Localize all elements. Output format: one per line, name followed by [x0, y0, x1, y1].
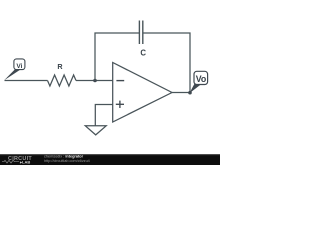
node junction at inverting input [93, 79, 97, 83]
CircuitLab watermark footer bar [0, 154, 220, 165]
resistor R [48, 62, 77, 86]
svg-text:▸LAB: ▸LAB [19, 159, 30, 164]
op-amp inverting input marker - [116, 80, 124, 82]
wire feedback right segment down to output [143, 33, 190, 93]
svg-text:chemsodix : integrator: chemsodix : integrator [44, 154, 84, 158]
wire noninverting input to ground [95, 105, 112, 126]
op-amp U1 [113, 63, 172, 123]
wire resistor to op-amp inverting input [76, 80, 113, 82]
svg-text:Vi: Vi [16, 63, 22, 70]
flag Vo [189, 71, 207, 93]
flag Vi [4, 59, 25, 80]
node junction at output [188, 91, 192, 95]
svg-text:R: R [57, 62, 63, 71]
wire op-amp output [172, 92, 190, 94]
op-amp noninverting input marker + [116, 103, 124, 105]
wire input from Vi to resistor [5, 80, 48, 82]
svg-text:Vo: Vo [196, 74, 207, 84]
capacitor C [139, 21, 146, 58]
ground [85, 126, 106, 135]
svg-text:C: C [140, 48, 146, 57]
svg-text:http://circuitlab.com/c6vzu4: http://circuitlab.com/c6vzu4 [44, 159, 90, 163]
wire feedback up-left segment [95, 33, 139, 81]
